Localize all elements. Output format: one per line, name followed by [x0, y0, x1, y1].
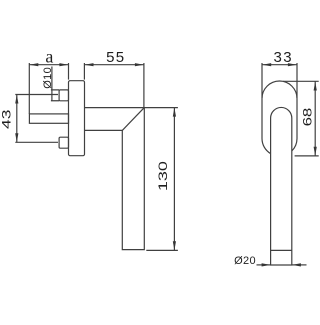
svg-text:43: 43	[0, 110, 14, 129]
svg-text:130: 130	[157, 161, 170, 191]
dim 130: dimension line	[173, 108, 175, 251]
label 130 (rotated)	[157, 161, 170, 191]
arrow O20 left-pointing	[292, 263, 301, 266]
dim 55: dimension line	[85, 64, 144, 66]
dim O10: dimension line	[51, 67, 53, 101]
dim 33: dimension line	[262, 64, 297, 66]
dim a: extension line left	[28, 63, 30, 114]
arrow 130 up	[173, 108, 176, 117]
svg-text:a: a	[45, 46, 53, 66]
arrow 43 down	[15, 133, 18, 142]
arrow 68 down	[314, 147, 317, 156]
dim a: extension line right	[68, 63, 70, 80]
rosette front view (stadium, bottom cap clipped by grip)	[262, 81, 297, 154]
bottom screw center line	[15, 141, 58, 143]
label 43 (rotated)	[0, 110, 14, 129]
dim O20: leader right	[292, 264, 307, 266]
arrow 55 right	[135, 63, 144, 66]
label 68 (rotated)	[302, 108, 315, 127]
dim a: dimension line	[29, 64, 68, 66]
dim 55: extension line left	[83, 63, 85, 80]
grip front view	[271, 107, 292, 265]
dim O10: extension lines	[51, 90, 59, 101]
arrow 130 down	[173, 241, 176, 250]
dim 130: extension line top	[144, 107, 178, 109]
handle neck and grip outline (side view)	[85, 108, 145, 250]
arrow 55 left	[85, 63, 94, 66]
grip end cap line	[271, 249, 292, 251]
dim 130: extension line bottom	[146, 249, 178, 251]
bottom screw head	[59, 137, 68, 148]
top screw head	[59, 90, 68, 101]
arrow O20 right-pointing	[262, 263, 271, 266]
svg-text:55: 55	[106, 49, 125, 66]
arrow 43 up	[15, 95, 18, 104]
svg-text:33: 33	[274, 49, 293, 66]
svg-text:68: 68	[302, 108, 315, 127]
arrow a right	[59, 63, 68, 66]
dim 68: dimension line	[314, 82, 316, 156]
dim 33: extension line right	[296, 63, 298, 98]
dim 68: extension line bottom	[295, 155, 319, 157]
dim 33: extension line left	[261, 63, 263, 98]
svg-text:Ø10: Ø10	[42, 67, 54, 89]
arrow a left	[29, 63, 38, 66]
dim 55: extension line right	[143, 63, 145, 108]
svg-text:Ø20: Ø20	[234, 255, 256, 267]
rosette plate (side view)	[69, 81, 85, 156]
dim 68: extension line top	[283, 80, 319, 82]
dim 43: dimension line	[16, 95, 18, 143]
square spindle	[29, 114, 68, 123]
label O10 (rotated)	[42, 67, 54, 89]
dim O20: leader left	[257, 264, 271, 266]
arrow 68 up	[314, 82, 317, 91]
bend crease line	[122, 108, 144, 131]
arrow 33 right	[288, 63, 297, 66]
arrow 33 left	[262, 63, 271, 66]
top screw center line	[15, 94, 58, 96]
